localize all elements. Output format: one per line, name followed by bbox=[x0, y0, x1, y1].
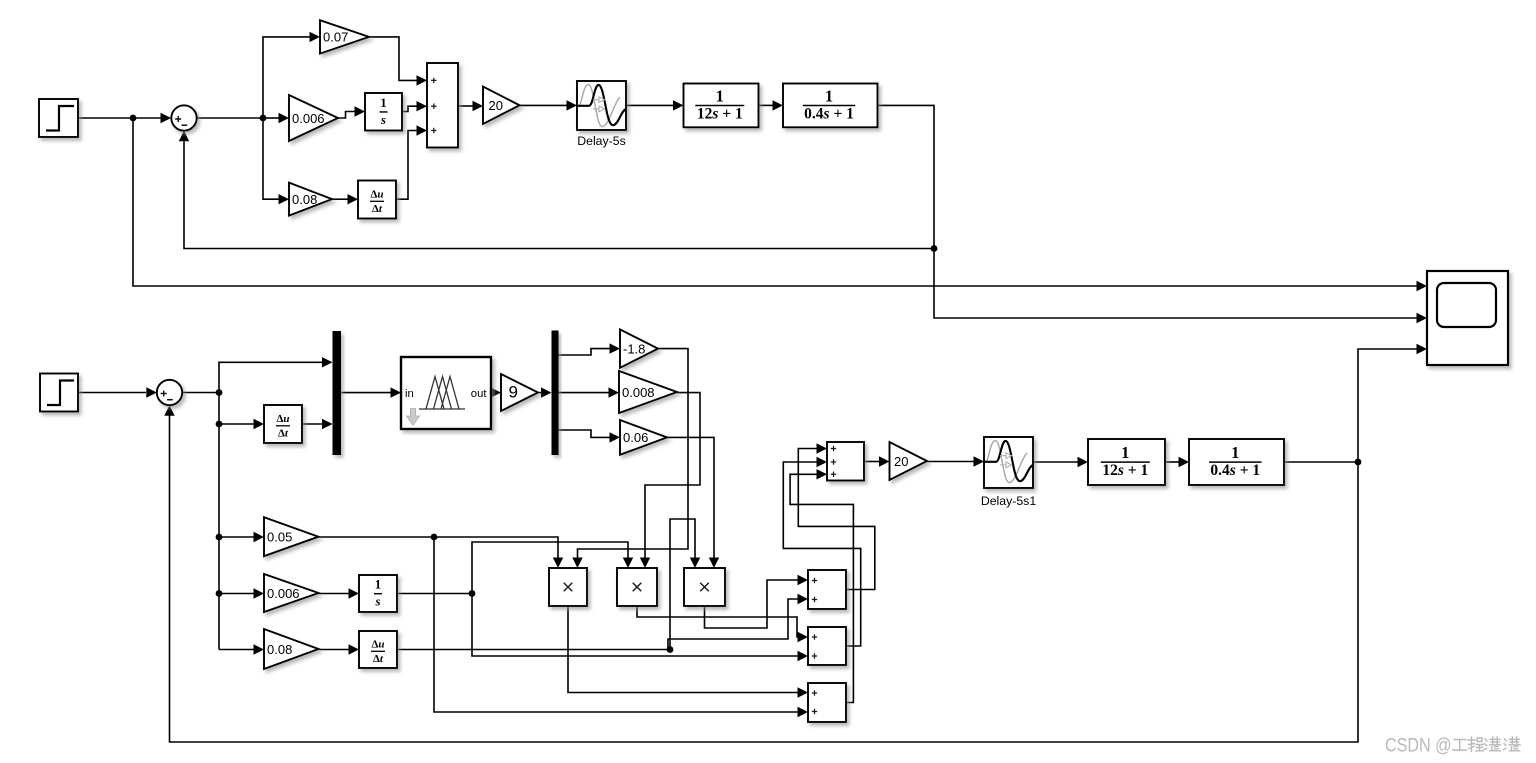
svg-text:Δu: Δu bbox=[276, 413, 289, 425]
svg-text:-1.8: -1.8 bbox=[623, 341, 645, 356]
svg-text:0.006: 0.006 bbox=[292, 111, 325, 126]
svg-text:1: 1 bbox=[1121, 443, 1129, 462]
svg-text:0.008: 0.008 bbox=[622, 385, 655, 400]
svg-text:0.08: 0.08 bbox=[292, 192, 317, 207]
svg-text:0.4s + 1: 0.4s + 1 bbox=[1210, 462, 1260, 479]
svg-text:s: s bbox=[380, 113, 386, 127]
svg-text:1: 1 bbox=[825, 87, 833, 106]
svg-text:12s + 1: 12s + 1 bbox=[697, 106, 743, 123]
svg-text:1: 1 bbox=[716, 87, 724, 106]
svg-text:20: 20 bbox=[489, 98, 503, 113]
svg-text:0.4s + 1: 0.4s + 1 bbox=[804, 106, 854, 123]
svg-text:1: 1 bbox=[380, 96, 386, 110]
svg-text:s: s bbox=[375, 595, 381, 609]
svg-text:Delay-5s1: Delay-5s1 bbox=[981, 494, 1037, 508]
svg-text:1: 1 bbox=[375, 578, 381, 592]
svg-text:0.08: 0.08 bbox=[267, 642, 292, 657]
svg-text:Δt: Δt bbox=[372, 203, 383, 215]
svg-text:9: 9 bbox=[509, 382, 518, 401]
svg-text:in: in bbox=[405, 388, 414, 400]
svg-text:Δt: Δt bbox=[278, 427, 289, 439]
svg-text:0.05: 0.05 bbox=[267, 530, 292, 545]
svg-text:0.06: 0.06 bbox=[623, 430, 648, 445]
svg-text:Δt: Δt bbox=[373, 653, 384, 665]
svg-text:0.07: 0.07 bbox=[323, 30, 348, 45]
svg-text:Delay-5s: Delay-5s bbox=[577, 134, 626, 148]
svg-text:CSDN @: CSDN @ bbox=[1385, 736, 1452, 757]
svg-text:20: 20 bbox=[894, 454, 908, 469]
svg-text:0.006: 0.006 bbox=[267, 586, 300, 601]
svg-text:Δu: Δu bbox=[371, 639, 384, 651]
svg-text:1: 1 bbox=[1231, 443, 1239, 462]
svg-text:Δu: Δu bbox=[370, 189, 383, 201]
svg-text:12s + 1: 12s + 1 bbox=[1102, 462, 1148, 479]
svg-text:out: out bbox=[471, 388, 488, 400]
